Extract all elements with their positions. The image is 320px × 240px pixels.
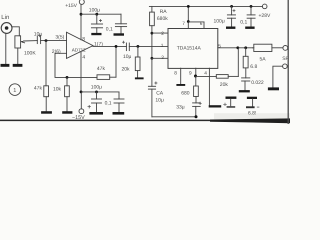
node dot output/feedback [115, 45, 118, 48]
svg-text:+28V: +28V [259, 13, 271, 19]
wire RA to pins 2,3 [151, 26, 153, 59]
op-amp U1 AD712 [67, 32, 94, 58]
power +28V terminal [262, 4, 267, 9]
ground (C9) [239, 90, 250, 92]
border bottom line [0, 119, 215, 121]
ground (C11) [226, 27, 235, 29]
wire +15V rail [81, 13, 121, 15]
resistor R4 20k to ground [137, 46, 139, 57]
node dot R4 tap [137, 45, 140, 48]
pin 8 supply stub [80, 4, 82, 39]
svg-text:9: 9 [189, 70, 192, 76]
ground (R4) [135, 77, 144, 79]
wire wiper to C1 [24, 40, 38, 42]
wire op-amp output [93, 45, 126, 47]
node circled 1 [9, 84, 21, 96]
wire C4 to TDA pin1 [129, 45, 168, 47]
svg-text:4: 4 [204, 70, 207, 76]
svg-text:10μ: 10μ [155, 97, 164, 103]
ground (C2) [91, 33, 101, 35]
svg-text:2(6): 2(6) [52, 49, 61, 55]
svg-text:33μ: 33μ [176, 105, 185, 111]
resistor RA 680k [151, 6, 153, 12]
wire pot bottom to ground [17, 48, 19, 64]
svg-text:RA: RA [160, 9, 168, 15]
svg-text:6.8: 6.8 [250, 64, 257, 70]
ground (C3) [114, 33, 125, 35]
capacitor C7 33u [195, 97, 197, 103]
resistor R1 47k bias [44, 86, 49, 97]
wire pin2 stub [152, 32, 168, 34]
svg-text:100μ: 100μ [91, 84, 102, 90]
power -15V terminal [80, 92, 82, 109]
wire -15V rail [81, 91, 119, 93]
svg-text:680: 680 [181, 90, 190, 96]
wire C1 to op-amp pin3 [41, 40, 67, 42]
node dot +15V rail [80, 13, 83, 16]
ground (speaker return) [268, 87, 279, 90]
capacitor C10 artifact [247, 97, 257, 99]
wire +28V rail [149, 5, 262, 7]
svg-text:680k: 680k [157, 16, 168, 22]
node dot -15V [80, 91, 83, 94]
capacitor C8 bootstrap [226, 97, 237, 99]
wire inverting input L [55, 53, 97, 77]
wire pins 7,6 supply [187, 6, 189, 28]
svg-text:7: 7 [182, 21, 185, 27]
svg-text:CA: CA [156, 90, 164, 96]
svg-text:0,1: 0,1 [240, 19, 247, 25]
wire feedback riser [115, 46, 117, 77]
wire feedback riser right [237, 48, 239, 77]
resistor R7 6.8 [245, 48, 247, 57]
svg-text:100K: 100K [24, 51, 36, 57]
svg-text:20k: 20k [122, 66, 131, 72]
svg-text:0.022: 0.022 [251, 80, 264, 86]
svg-text:1: 1 [161, 43, 164, 49]
ground (pin8) [176, 84, 185, 86]
svg-text:20k: 20k [220, 82, 229, 88]
resistor R5 20k feedback [216, 75, 228, 79]
capacitor C4 10u coupling [122, 41, 124, 43]
resistor R6 680 [194, 86, 199, 97]
capacitor CA 10u [151, 58, 153, 86]
resistor R2 10k [66, 77, 68, 85]
svg-text:3(5): 3(5) [55, 34, 64, 40]
capacitor C8 plus mark [224, 103, 227, 105]
wire pin9 to R5 [196, 75, 217, 77]
wire fuse to SP terminal [272, 47, 283, 49]
svg-text:47k: 47k [34, 85, 43, 91]
ground (jack) [1, 64, 10, 67]
pin 4 supply stub [80, 52, 82, 92]
svg-text:1: 1 [13, 88, 16, 94]
ground (R1) [41, 111, 52, 114]
svg-text:47k: 47k [97, 66, 106, 72]
svg-text:AD712: AD712 [72, 47, 86, 52]
svg-text:2: 2 [161, 31, 164, 37]
wire junction down to R1 [45, 41, 47, 86]
node dot inverting rail / R2 [66, 76, 69, 79]
wire jack sleeve to ground [5, 33, 7, 64]
capacitor C9 0.022 [245, 68, 247, 78]
svg-text:100μ: 100μ [89, 7, 100, 13]
svg-text:0,1: 0,1 [106, 26, 113, 32]
svg-text:0,1: 0,1 [105, 101, 112, 107]
svg-text:TDA1514A: TDA1514A [177, 46, 202, 52]
border bottom-right smear [210, 118, 290, 123]
ground (C12) [245, 27, 254, 29]
terminal SP+ [283, 46, 288, 51]
ground (C5) [89, 112, 103, 115]
svg-text:3: 3 [161, 55, 164, 61]
node dot C5 tap [95, 91, 98, 94]
node junction dot noninverting input [45, 39, 48, 42]
pot wiper arrow [22, 42, 25, 43]
connector J1 input jack [1, 23, 12, 34]
wire jack tip to pot top [12, 27, 19, 36]
svg-text:100μ: 100μ [214, 18, 225, 24]
svg-text:8: 8 [82, 36, 85, 42]
IC U2 TDA1514A [168, 29, 218, 69]
wire bottom feedback rail [152, 116, 196, 118]
svg-text:10k: 10k [53, 87, 62, 93]
svg-text:10μ: 10μ [123, 54, 132, 60]
svg-text:Lin: Lin [1, 14, 9, 21]
wire pin3 stub [152, 57, 168, 59]
potentiometer RV1 100K [15, 36, 21, 48]
wire pin4 thick stub [209, 105, 222, 107]
ground (R2) [62, 111, 72, 114]
svg-text:5A: 5A [260, 56, 267, 62]
svg-text:10μ: 10μ [34, 31, 43, 37]
svg-text:+15V: +15V [65, 3, 77, 9]
ground (pot) [13, 64, 23, 67]
svg-text:8: 8 [174, 70, 177, 76]
fuse F1 5A [254, 44, 272, 51]
terminal SP- return [283, 64, 288, 69]
svg-text:6: 6 [200, 21, 203, 27]
ground (C6) [113, 112, 125, 115]
svg-text:5: 5 [218, 43, 221, 49]
svg-text:4: 4 [82, 54, 85, 60]
border right edge [287, 0, 289, 124]
